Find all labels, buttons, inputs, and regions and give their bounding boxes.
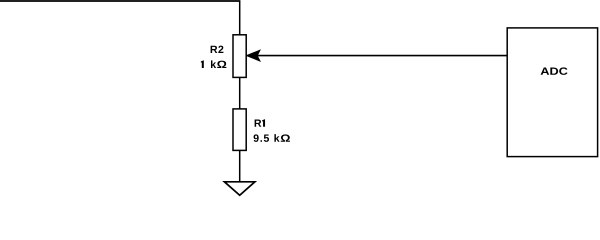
value label 1 kOhm <box>201 60 226 68</box>
resistor R1 <box>233 109 246 150</box>
label ADC <box>541 67 568 75</box>
label R1 <box>255 119 265 127</box>
arrowhead at R2 wiper <box>247 51 259 61</box>
label R2 <box>211 46 224 53</box>
wire: R1 bottom to ground <box>239 150 241 181</box>
ground <box>224 182 255 196</box>
wire: wiper arrow horizontal from ADC input <box>250 55 507 57</box>
wire: top horizontal rail <box>0 0 240 2</box>
block ADC <box>507 28 597 157</box>
wire: R2 bottom to R1 top <box>239 77 241 109</box>
resistor R2 (potentiometer body) <box>233 35 246 78</box>
value label 9.5 kOhm <box>254 134 290 142</box>
wire: vertical drop from top rail to R2 <box>239 1 241 35</box>
